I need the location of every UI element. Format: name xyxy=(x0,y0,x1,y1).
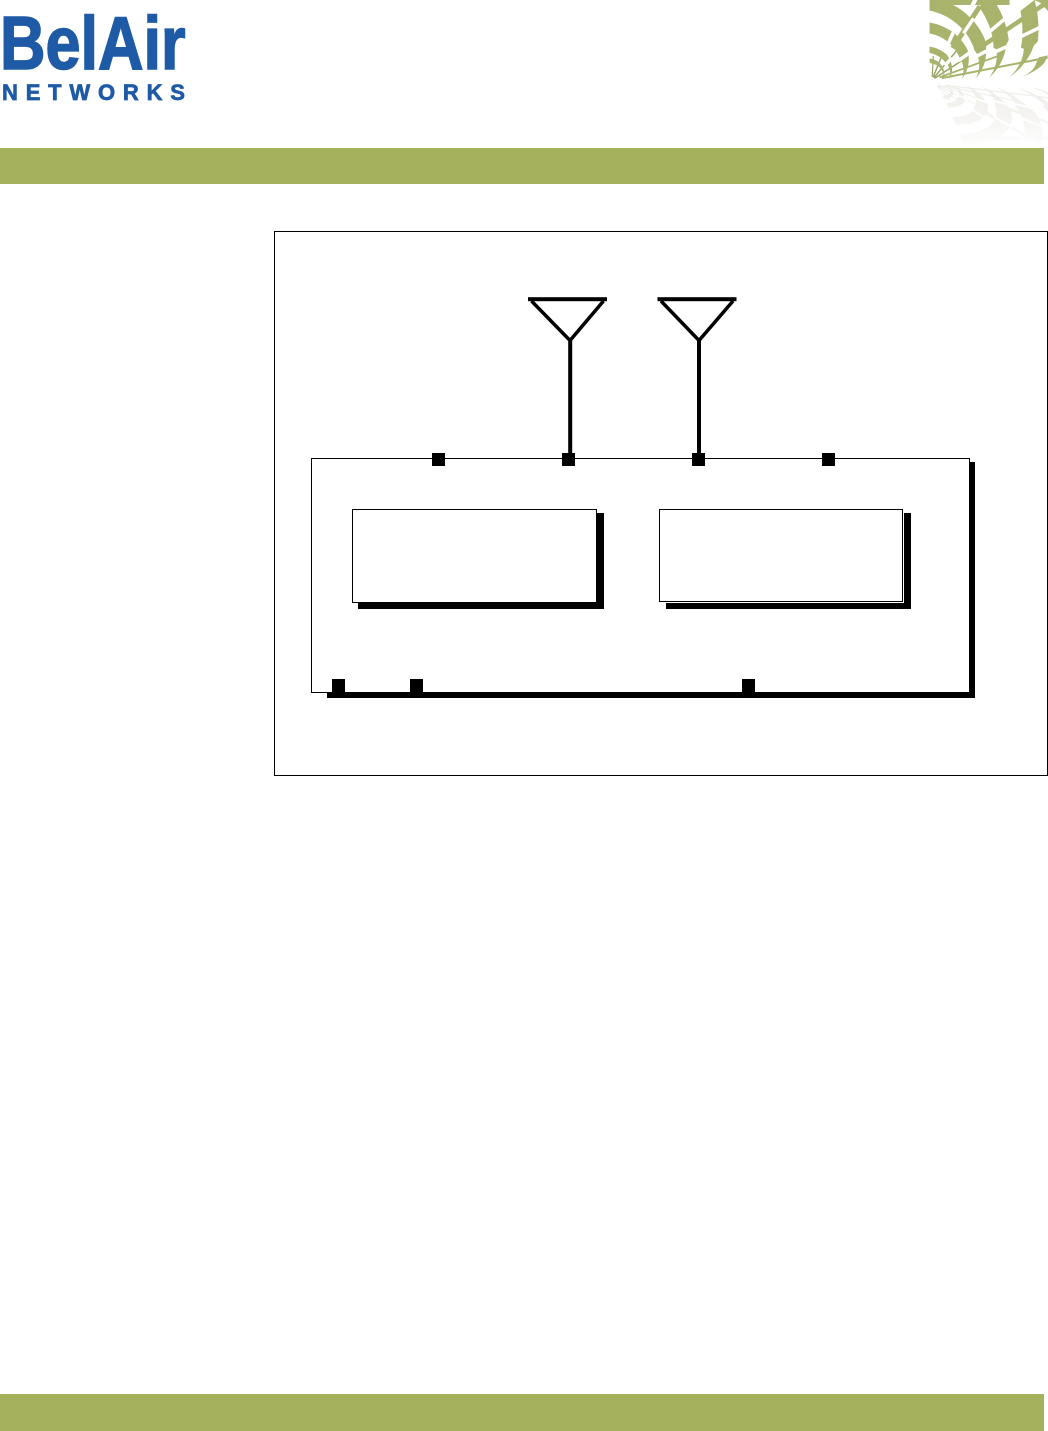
antenna ANT1 feed line xyxy=(568,338,572,453)
radio module 1 box xyxy=(352,509,597,603)
top port node 1 xyxy=(432,453,445,466)
top olive banner bar xyxy=(0,148,1044,184)
antenna ANT2 V element xyxy=(661,301,733,341)
BelAir logo wordmark xyxy=(0,6,186,81)
antenna ANT2 feed line xyxy=(697,338,701,453)
antenna ANT1 V element xyxy=(532,301,604,341)
bottom port node 2 xyxy=(410,679,423,692)
bottom olive banner bar xyxy=(0,1394,1044,1431)
top-right swoosh graphic xyxy=(880,0,1048,152)
top port node 4 xyxy=(822,453,835,466)
radio module 1 shadow right xyxy=(597,513,604,610)
chassis shadow right xyxy=(970,462,976,698)
chassis main box xyxy=(311,458,970,693)
top port node 3 (ANT2 feed) xyxy=(692,453,705,466)
antenna ANT2 top bar xyxy=(658,297,737,301)
NETWORKS wordmark xyxy=(2,82,193,104)
radio module 2 shadow bottom xyxy=(666,603,911,610)
radio module 2 box xyxy=(659,509,903,603)
bottom port node 3 xyxy=(742,679,755,692)
figure frame xyxy=(274,231,1048,777)
antenna ANT1 (left) and ANT2 (right) xyxy=(520,290,750,460)
radio module 1 shadow bottom xyxy=(358,602,604,609)
chassis shadow bottom xyxy=(327,693,976,698)
radio module 2 shadow right xyxy=(904,513,911,610)
bottom port node 1 xyxy=(332,679,345,692)
antenna ANT1 top bar xyxy=(528,297,607,301)
top port node 2 (ANT1 feed) xyxy=(562,453,575,466)
